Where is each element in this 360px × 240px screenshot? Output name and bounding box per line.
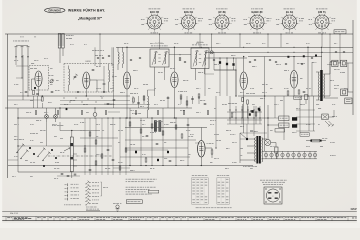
paper margin left <box>0 0 2 228</box>
wire: left border bus <box>7 34 9 178</box>
title block band <box>0 215 360 217</box>
resistor R22 <box>140 129 142 133</box>
wire: transformer leads <box>247 138 256 140</box>
switch S2c <box>38 149 45 157</box>
grid capacitor C14 <box>315 55 317 57</box>
tube V4 EABC80 <box>240 72 247 90</box>
coupling capacitor C13 <box>303 55 305 57</box>
capacitor C4 <box>92 69 95 71</box>
voltage selector plate <box>264 187 282 204</box>
wire: V1b leads <box>85 89 87 97</box>
wire: PU leads <box>268 117 279 119</box>
wire: aerial bus top <box>5 33 353 35</box>
capacitor C6 <box>167 97 170 99</box>
volume potentiometer P1 <box>70 137 73 172</box>
wire: mid horizontals extra <box>330 61 338 63</box>
wire: Fi1 secondary down <box>154 67 156 80</box>
tube V3 EF89 <box>171 72 178 88</box>
notes paragraph 1 <box>126 178 128 181</box>
dial lamp La2 <box>54 115 58 119</box>
capacitor C11 <box>259 109 261 111</box>
wire: tone network horizontals <box>60 130 100 132</box>
title block text entries <box>7 216 10 219</box>
mains transformer primary winding <box>255 138 256 163</box>
mains transformer secondary winding <box>262 138 263 163</box>
trimmer C3 <box>103 83 106 85</box>
capacitor C19 <box>107 149 110 151</box>
capacitor C24 <box>167 151 169 153</box>
wire: vertical x216 <box>215 96 217 148</box>
wire: aerial down leads <box>21 58 23 66</box>
wire: V3 anode up <box>173 47 175 72</box>
wire: ground bus y165 <box>8 165 253 167</box>
label box mains <box>300 133 309 137</box>
inline part box <box>148 190 159 193</box>
detector diode D2 <box>226 63 228 66</box>
capacitor C18 <box>74 173 77 175</box>
wire: right border bus <box>352 20 354 115</box>
wire: jack leads <box>315 116 322 118</box>
wire: between IF cans <box>169 54 191 56</box>
capacitor C5 <box>137 102 140 104</box>
resistor R15 <box>89 132 91 136</box>
resistor R17 <box>101 154 103 158</box>
speaker LS1 <box>332 60 338 66</box>
svg-text:●: ● <box>273 196 274 198</box>
svg-text:Md 4.53: Md 4.53 <box>10 213 19 215</box>
wire: right ladder horizontals <box>296 109 315 111</box>
wire: V3 cathode down <box>173 88 175 119</box>
extra labels dense pass <box>20 36 22 39</box>
wire: vertical x23 <box>22 55 24 100</box>
wire: V4 down <box>243 90 245 134</box>
volume blob <box>251 110 253 113</box>
padder capacitors <box>113 99 116 101</box>
jack box TB <box>345 98 352 104</box>
resistor R5 <box>180 95 182 99</box>
resistor R28 <box>231 113 233 117</box>
electrolytic can <box>304 95 308 100</box>
capacitor C8 <box>204 103 207 105</box>
wire: vertical x268 <box>267 105 269 140</box>
resistor R20 <box>125 148 127 152</box>
svg-text:„Musikgerät 97“: „Musikgerät 97“ <box>78 17 103 21</box>
legend: caption line <box>64 203 65 206</box>
switch S1 contact <box>66 108 68 110</box>
wire: AM coil screen verticals <box>113 47 115 108</box>
wire: OT to speakers <box>327 73 330 75</box>
neutralising circle <box>210 51 213 54</box>
wire: V2 anode to IF1 <box>126 47 128 72</box>
wire: top line drops <box>99 34 101 50</box>
label box EM71 top right <box>334 30 346 34</box>
paper margin bottom <box>0 223 360 228</box>
wire: coil to tuner <box>59 48 61 63</box>
wire: ground bus y172 <box>18 171 150 173</box>
capacitor C28 <box>169 160 172 162</box>
oscillator coil L5 <box>148 96 149 110</box>
small parts under UKW <box>64 98 65 99</box>
wire: V2 cathode down <box>126 89 128 118</box>
tube socket view EL84 <box>283 15 297 29</box>
wire: screen rail y52 <box>205 51 250 53</box>
connector box TA2 <box>279 123 289 128</box>
speaker LS2 <box>341 60 347 66</box>
wire: OT primary feed <box>320 47 322 70</box>
label box below <box>275 129 285 132</box>
extra resistors on supply bus <box>35 111 37 115</box>
legend: coil symbols column <box>66 184 69 186</box>
detector diode D1 <box>219 61 221 64</box>
resistor R16 <box>95 140 97 144</box>
capacitor C22 <box>146 135 149 137</box>
resistor R23 <box>151 124 153 128</box>
svg-text:WERKE FÜRTH BAY.: WERKE FÜRTH BAY. <box>68 8 105 13</box>
voltage selector caption <box>260 179 263 182</box>
resistor R13 <box>211 150 213 154</box>
rectifier Gr1 <box>265 139 271 145</box>
resistor R12 <box>287 91 289 95</box>
resistor R11 <box>298 90 300 94</box>
resistor R6 <box>186 101 188 105</box>
wire: V5 grid <box>293 57 295 71</box>
legend: side braces <box>101 182 103 196</box>
wire: speaker leads right <box>338 62 341 64</box>
detector capacitor C9 <box>232 63 234 66</box>
wire: EM71 leads <box>200 128 202 141</box>
resistor R24 <box>162 131 164 135</box>
table caption <box>196 206 199 209</box>
wire: chassis bus y108 <box>5 107 192 109</box>
wire: AF rail y56.5 <box>248 56 322 58</box>
trimmer T1 <box>50 80 53 83</box>
wire: AGC bus right y96 <box>238 95 330 97</box>
resistor R14 <box>84 148 86 152</box>
tube socket view EABC80 <box>250 15 264 29</box>
GRUNDIG logo oval <box>45 8 65 13</box>
svg-text:EABC 80: EABC 80 <box>252 10 264 14</box>
wire: detector out <box>214 69 236 71</box>
coil L3 <box>109 70 110 82</box>
cathode blob <box>34 87 36 89</box>
tube socket view EF89 <box>215 15 229 29</box>
IF transformer Fi2 <box>191 48 209 69</box>
AF choke pair <box>154 121 156 132</box>
wire: V1a leads <box>38 87 40 97</box>
svg-text:EM 71: EM 71 <box>318 10 326 14</box>
switch S2d <box>43 153 50 161</box>
smoothing electrolytic C31 <box>275 147 278 153</box>
voltage table 2 <box>217 174 219 177</box>
resistor R25 <box>175 125 177 129</box>
wire: right ladder verticals <box>308 96 310 131</box>
wire: AF rail extension <box>250 51 353 53</box>
capacitor C23 <box>156 143 159 145</box>
mains switch <box>246 138 248 140</box>
tube socket view ECC85 <box>148 15 162 29</box>
tube V1b ECC85 triode <box>83 72 90 89</box>
output transformer Tr2 core <box>320 70 323 101</box>
legend: switch symbols column <box>86 182 89 184</box>
wire: screen feed <box>307 47 309 96</box>
electrolytic C27 <box>157 159 159 161</box>
capacitor C21 <box>89 169 92 171</box>
wire: AF verticals <box>129 108 131 166</box>
capacitor C1 <box>36 93 39 95</box>
legend: bottom note <box>86 206 88 209</box>
connector box TA1 <box>279 116 289 121</box>
svg-text:EL 84: EL 84 <box>286 10 293 14</box>
resistor R10 <box>255 112 257 116</box>
capacitor C15 <box>303 91 306 93</box>
coupling capacitor C12 <box>287 56 289 58</box>
wire: right area verticals <box>274 96 276 118</box>
resistor R19 <box>119 166 121 170</box>
IF transformer Fi1 <box>150 49 169 67</box>
tube V6 EM71 magic eye <box>198 141 206 158</box>
chassis ground legend symbol <box>116 205 119 208</box>
resistor R27 <box>145 158 147 162</box>
switch bank S3 verticals <box>229 106 231 124</box>
resistor R3 <box>133 98 135 102</box>
heater chain lamps and tube heaters <box>264 153 267 156</box>
wire: mains input <box>240 159 247 161</box>
mechanical coupling dash line <box>48 155 112 157</box>
output transformer primary winding <box>318 72 319 100</box>
heater bus wires <box>263 150 317 152</box>
tube V5 EL84 <box>290 71 298 89</box>
wire: detector rail y58 <box>205 57 247 59</box>
switch wafer marks <box>29 147 31 149</box>
tube socket view EM71 <box>315 15 329 29</box>
electrolytic C26 <box>135 151 137 154</box>
wire: HT rail y47 <box>116 46 353 48</box>
wire: lamp feeds <box>46 108 48 115</box>
wire: vertical x264.7 <box>264 82 266 151</box>
extra junction dots 2 <box>159 33 160 34</box>
wire: AF horizontals <box>125 139 196 141</box>
oscillator coil L2 <box>69 69 70 85</box>
resistor R7 <box>198 94 200 98</box>
aerial coil L1 <box>58 34 61 49</box>
wire: V5 cathode <box>293 88 295 96</box>
capacitor C20 <box>112 159 115 161</box>
svg-text:EF 89: EF 89 <box>219 10 226 14</box>
resistor R21 <box>129 122 131 126</box>
capacitor C29 <box>249 113 251 115</box>
extra small caps top area <box>97 57 99 59</box>
tuning capacitor C2 <box>74 76 77 78</box>
switch bank crossbars <box>227 111 262 113</box>
screen dropper box <box>294 96 302 99</box>
output transformer secondary winding <box>324 74 325 98</box>
wire: mid verticals extra <box>94 47 96 66</box>
part number box <box>126 200 142 204</box>
aerial terminals <box>15 47 17 57</box>
tube socket view ECH81 <box>182 15 196 29</box>
resistor R9 <box>247 100 249 104</box>
resistor R8 <box>242 97 244 101</box>
notes paragraph 2 <box>126 186 128 189</box>
capacitor C7 <box>191 98 194 100</box>
wire: footer separator <box>0 211 360 213</box>
resistor R1 <box>33 90 35 94</box>
tube V1a ECC85 triode <box>35 71 42 87</box>
wire: ladder under UKW box <box>60 100 130 102</box>
junction dots <box>126 47 127 48</box>
dial lamp La1 <box>45 115 49 119</box>
title block dividers <box>5 216 7 220</box>
resistor R4 <box>143 96 145 100</box>
speaker LS3 <box>341 89 348 96</box>
svg-text:GRUNDIG: GRUNDIG <box>48 8 61 12</box>
dashed screen box FM input <box>29 66 49 91</box>
dashed box UKW tuner unit <box>64 64 113 93</box>
wire: Fi2 leads <box>195 69 197 81</box>
resistor R18 <box>95 161 97 165</box>
phono jack J1 <box>322 114 329 120</box>
capacitor C16 <box>61 173 64 175</box>
connector plug TA1 <box>292 117 297 121</box>
jack arrows TA <box>325 121 330 126</box>
component value labels <box>31 62 34 65</box>
wire: tone network verticals <box>84 118 86 175</box>
switch S2b <box>21 151 28 159</box>
svg-text:ECC 85: ECC 85 <box>150 10 160 14</box>
dial lamp La3 <box>93 113 97 117</box>
tube V2 ECH81 <box>123 72 130 89</box>
AM input coils L4 <box>118 52 119 64</box>
wire: V4 anode up <box>243 57 245 73</box>
paper margin right <box>357 0 360 228</box>
svg-text:ECH 81: ECH 81 <box>184 10 194 14</box>
resistor R2 <box>41 97 43 101</box>
connector plug TA2 <box>292 124 297 128</box>
wire: supply bus y118 <box>18 117 268 119</box>
capacitor C25 <box>187 124 190 126</box>
fuse Si1 <box>306 140 326 142</box>
resistor R26 <box>181 134 183 138</box>
wire: vertical x18 <box>17 108 19 172</box>
capacitor C17 <box>67 175 70 177</box>
capacitor C30 <box>258 108 260 111</box>
extra components row on AGC bus <box>25 91 28 93</box>
wire: AGC bus y96 <box>8 95 130 97</box>
mains transformer Tr1 core <box>256 136 258 164</box>
voltage table 1 <box>192 174 194 177</box>
switch S2a <box>17 145 24 153</box>
capacitor C10 <box>250 110 253 112</box>
wire: AF bus y127 <box>125 127 207 129</box>
